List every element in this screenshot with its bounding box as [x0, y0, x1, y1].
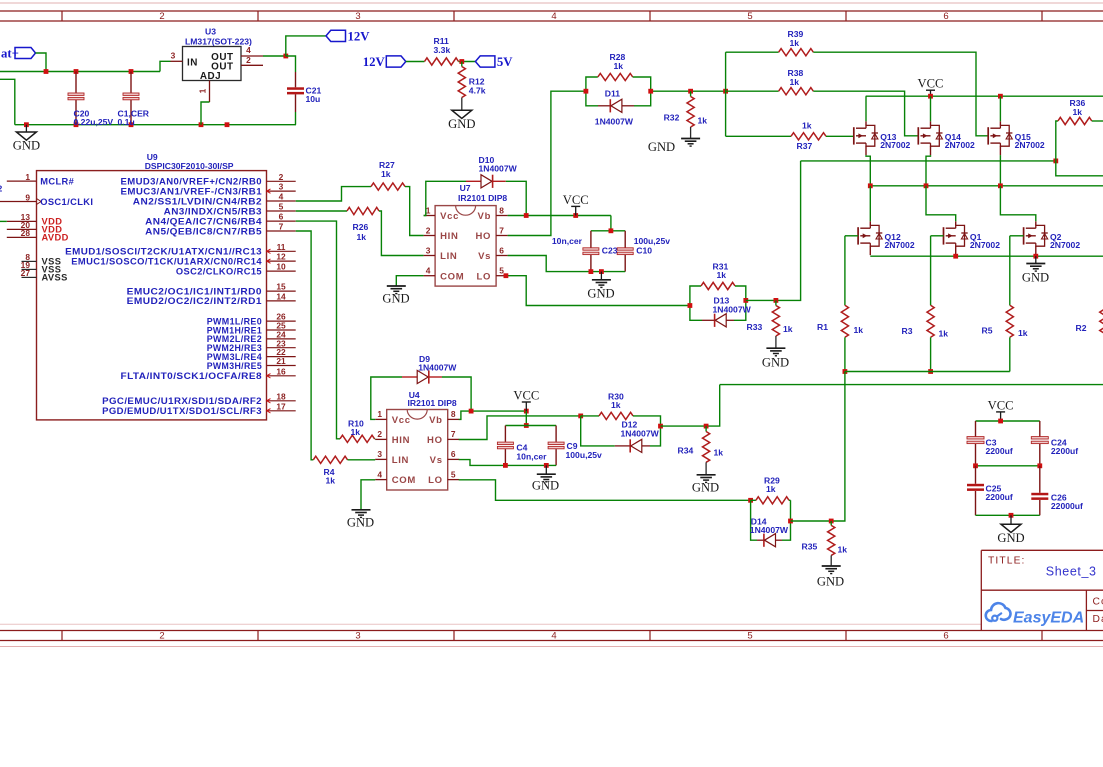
svg-text:2200uf: 2200uf — [986, 492, 1013, 502]
capacitor C25 — [967, 466, 1013, 516]
wire R26 to LIN — [379, 211, 424, 256]
svg-text:AVDD: AVDD — [42, 233, 69, 243]
resistor R39 — [779, 29, 814, 56]
resistor R32 — [664, 91, 708, 138]
resistor R5 — [982, 305, 1028, 371]
svg-text:5: 5 — [747, 631, 752, 642]
resistor R35 — [802, 521, 848, 566]
svg-text:IR2101 DIP8: IR2101 DIP8 — [458, 193, 507, 203]
capacitor C3 — [967, 421, 1013, 466]
svg-text:Vb: Vb — [429, 415, 443, 426]
ground GND4 — [382, 286, 409, 306]
svg-text:2200uf: 2200uf — [986, 446, 1013, 456]
ground GND12 — [997, 515, 1024, 545]
net flag 12V source — [363, 55, 406, 69]
EasyEDA logo — [986, 603, 1084, 626]
svg-text:4.7k: 4.7k — [469, 85, 486, 95]
wire LO to D13 — [504, 273, 690, 305]
svg-text:GND: GND — [587, 287, 614, 301]
svg-text:22000uf: 22000uf — [1051, 501, 1083, 511]
svg-text:3: 3 — [426, 245, 431, 255]
svg-text:1: 1 — [426, 205, 431, 215]
svg-text:9: 9 — [25, 192, 30, 202]
wire to U3 IN — [160, 61, 171, 71]
svg-text:GND: GND — [532, 479, 559, 493]
svg-text:GND: GND — [448, 117, 475, 131]
svg-text:DSPIC30F2010-30I/SP: DSPIC30F2010-30I/SP — [145, 161, 234, 171]
svg-text:7: 7 — [499, 225, 504, 235]
capacitor C23 — [552, 231, 618, 272]
svg-text:GND: GND — [692, 481, 719, 495]
svg-text:6: 6 — [451, 449, 456, 459]
svg-text:5: 5 — [451, 469, 456, 479]
svg-text:AN2/SS1/LVDIN/CN4/RB2: AN2/SS1/LVDIN/CN4/RB2 — [133, 196, 262, 206]
ground GND8 — [532, 465, 559, 492]
wire U7 COM to ground — [396, 276, 423, 286]
wire U3 out — [263, 54, 288, 59]
wire — [36, 53, 47, 72]
svg-text:2200uf: 2200uf — [1051, 446, 1078, 456]
svg-text:ADJ: ADJ — [200, 71, 221, 82]
wire Q1 gate — [931, 236, 944, 305]
svg-text:AN3/INDX/CN5/RB3: AN3/INDX/CN5/RB3 — [164, 206, 262, 216]
wire + junction — [459, 59, 476, 64]
capacitor C26 — [1031, 466, 1083, 516]
svg-text:LO: LO — [428, 475, 443, 486]
wire to 12V flag — [286, 36, 326, 56]
svg-text:U3: U3 — [205, 26, 216, 36]
wire U7 Vcc up — [424, 181, 466, 215]
svg-text:1k: 1k — [611, 400, 621, 410]
svg-text:1N4007W: 1N4007W — [479, 163, 518, 173]
svg-text:4: 4 — [426, 266, 431, 276]
svg-text:3: 3 — [171, 50, 176, 60]
resistor R28 — [586, 52, 651, 91]
svg-text:14: 14 — [276, 292, 286, 302]
svg-text:1k: 1k — [326, 475, 336, 485]
wire LO U4 to R29 — [459, 480, 751, 501]
svg-text:U7: U7 — [460, 183, 471, 193]
transistor Q13 — [854, 96, 911, 186]
wire D11 output — [584, 89, 729, 94]
IC U7 IR2101 — [424, 183, 508, 286]
resistor R2 — [1076, 305, 1103, 337]
svg-text:AN5/QEB/IC8/CN7/RB5: AN5/QEB/IC8/CN7/RB5 — [145, 226, 262, 236]
power flag VCC3 — [513, 388, 539, 411]
svg-text:1k: 1k — [790, 77, 800, 87]
wire to cap rail — [610, 216, 612, 231]
svg-text:4: 4 — [279, 192, 284, 202]
svg-text:PGC/EMUC/U1RX/SDI1/SDA/RF2: PGC/EMUC/U1RX/SDI1/SDA/RF2 — [102, 396, 262, 406]
svg-text:GND: GND — [817, 575, 844, 589]
svg-text:R35: R35 — [802, 541, 818, 551]
svg-text:2N7002: 2N7002 — [970, 240, 1000, 250]
wire U9 pin6 down — [296, 221, 340, 439]
svg-text:10: 10 — [276, 262, 286, 272]
svg-text:Vcc: Vcc — [392, 415, 411, 426]
svg-text:LIN: LIN — [440, 251, 457, 262]
svg-text:12: 12 — [276, 252, 286, 262]
net flag Bat+ — [1, 47, 36, 61]
wire VCC rail row1 — [866, 94, 1103, 99]
ground GND3 — [587, 272, 614, 301]
ground GND9 — [347, 510, 374, 530]
ground GND10 — [692, 475, 719, 495]
svg-text:12V: 12V — [348, 30, 371, 44]
svg-text:GND: GND — [762, 356, 789, 370]
wire drain bus row2 — [868, 183, 1103, 188]
svg-text:OSC1/CLKI: OSC1/CLKI — [40, 197, 93, 207]
svg-text:2: 2 — [0, 184, 3, 194]
wire R37 to Q13 gate — [826, 135, 854, 137]
svg-text:EasyEDA: EasyEDA — [1013, 610, 1084, 627]
wire HO up to D11 — [508, 91, 586, 235]
svg-text:PWM3H/RE5: PWM3H/RE5 — [207, 361, 262, 371]
svg-text:GND: GND — [1022, 271, 1049, 285]
svg-text:Vs: Vs — [478, 251, 491, 262]
svg-text:GND: GND — [382, 292, 409, 306]
svg-text:10u: 10u — [306, 94, 321, 104]
resistor R31 — [690, 261, 746, 305]
svg-text:VCC: VCC — [563, 193, 589, 207]
IC U9 DSPIC30F2010 — [0, 152, 296, 420]
svg-text:0.22u,25V: 0.22u,25V — [74, 117, 114, 127]
svg-text:1N4007W: 1N4007W — [621, 428, 660, 438]
svg-text:4: 4 — [551, 11, 556, 22]
ground GND1 — [13, 125, 40, 153]
resistor R33 — [747, 300, 793, 347]
wire bus down to phase node — [776, 161, 801, 301]
svg-text:1k: 1k — [838, 544, 848, 554]
wire D9 to Vb — [442, 377, 471, 411]
resistor R10 — [340, 418, 375, 442]
svg-text:R2: R2 — [1076, 323, 1087, 333]
svg-text:1k: 1k — [766, 484, 776, 494]
svg-text:1k: 1k — [1073, 107, 1083, 117]
wire U9 pin7 down — [296, 231, 314, 460]
svg-text:10n,cer: 10n,cer — [552, 236, 583, 246]
svg-text:Vcc: Vcc — [440, 211, 459, 222]
svg-text:R37: R37 — [797, 141, 813, 151]
IC U4 IR2101 — [375, 390, 459, 490]
power flag VCC1 — [563, 193, 589, 216]
svg-text:IN: IN — [187, 57, 198, 68]
svg-text:1k: 1k — [783, 324, 793, 334]
svg-text:2N7002: 2N7002 — [880, 140, 910, 150]
svg-text:1: 1 — [198, 88, 208, 93]
svg-text:3: 3 — [355, 631, 360, 642]
svg-text:1k: 1k — [790, 38, 800, 48]
svg-text:8: 8 — [499, 205, 504, 215]
net label fragment — [0, 184, 3, 194]
svg-text:1N4007W: 1N4007W — [595, 116, 634, 126]
diode D10 — [466, 155, 518, 188]
resistor R29 — [748, 476, 790, 504]
wire U4 COM to ground — [361, 480, 375, 510]
svg-text:1k: 1k — [714, 447, 724, 457]
svg-text:R5: R5 — [982, 325, 993, 335]
resistor R3 — [902, 305, 949, 374]
svg-text:2: 2 — [426, 225, 431, 235]
svg-text:4: 4 — [377, 469, 382, 479]
svg-text:R1: R1 — [817, 322, 828, 332]
svg-text:LM317(SOT-223): LM317(SOT-223) — [185, 36, 252, 46]
svg-text:VCC: VCC — [513, 388, 539, 402]
svg-text:6: 6 — [279, 212, 284, 222]
svg-text:R3: R3 — [902, 326, 913, 336]
svg-text:Co: Co — [1093, 597, 1103, 608]
diode D11 — [586, 88, 651, 126]
wire U4 Vcc up — [371, 377, 402, 419]
svg-text:8: 8 — [451, 409, 456, 419]
wire Vs to cap bottom rail U4 — [459, 460, 556, 468]
svg-text:EMUC3/AN1/VREF-/CN3/RB1: EMUC3/AN1/VREF-/CN3/RB1 — [121, 186, 263, 196]
wire cap bank top rail — [976, 419, 1040, 424]
svg-text:EMUC1/SOSCO/T1CK/U1ARX/CN0/RC1: EMUC1/SOSCO/T1CK/U1ARX/CN0/RC14 — [71, 256, 262, 266]
svg-text:3: 3 — [279, 182, 284, 192]
svg-text:1: 1 — [25, 172, 30, 182]
regulator U3 — [171, 26, 264, 102]
svg-text:6: 6 — [499, 245, 504, 255]
svg-text:1N4007W: 1N4007W — [418, 363, 457, 373]
wire gate-resistor rail — [845, 371, 1010, 373]
svg-text:2N7002: 2N7002 — [1050, 240, 1080, 250]
resistor R37 — [791, 121, 826, 151]
svg-text:MCLR#: MCLR# — [40, 177, 74, 187]
svg-text:5: 5 — [279, 202, 284, 212]
svg-text:1: 1 — [377, 409, 382, 419]
power flag VCC4 — [988, 398, 1014, 421]
svg-text:21: 21 — [276, 356, 286, 366]
svg-text:Vb: Vb — [478, 211, 492, 222]
svg-text:HO: HO — [427, 435, 443, 446]
wire cap bank bottom rail — [976, 513, 1040, 518]
svg-text:Sheet_3: Sheet_3 — [1046, 565, 1097, 579]
wire main input rail — [0, 69, 160, 74]
ground GND6 — [1022, 256, 1049, 284]
svg-text:1k: 1k — [802, 121, 812, 131]
svg-text:2N7002: 2N7002 — [885, 240, 915, 250]
svg-text:GND: GND — [997, 531, 1024, 545]
svg-text:6: 6 — [943, 11, 948, 22]
wire R39 to Q15 gate — [813, 52, 988, 136]
wire R27 to HIN — [405, 187, 424, 236]
svg-text:R26: R26 — [353, 222, 369, 232]
svg-text:1k: 1k — [1018, 328, 1028, 338]
svg-text:2: 2 — [279, 172, 284, 182]
svg-text:at+: at+ — [1, 47, 19, 61]
svg-text:LO: LO — [477, 271, 492, 282]
svg-text:1k: 1k — [698, 115, 708, 125]
transistor Q14 — [918, 96, 975, 186]
capacitor C9 — [548, 426, 602, 466]
svg-text:1N4007W: 1N4007W — [750, 525, 789, 535]
svg-text:HO: HO — [475, 231, 491, 242]
svg-text:EMUD3/AN0/VREF+/CN2/RB0: EMUD3/AN0/VREF+/CN2/RB0 — [121, 177, 263, 187]
svg-text:GND: GND — [648, 140, 675, 154]
capacitor C1 — [118, 72, 150, 128]
svg-text:EMUD1/SOSCI/T2CK/U1ATX/CN1//RC: EMUD1/SOSCI/T2CK/U1ATX/CN1//RC13 — [65, 247, 262, 257]
svg-text:R33: R33 — [747, 322, 763, 332]
svg-text:3: 3 — [355, 11, 360, 22]
wire R38 to Q14 gate — [813, 91, 918, 136]
svg-text:6: 6 — [943, 631, 948, 642]
svg-text:IR2101 DIP8: IR2101 DIP8 — [408, 398, 457, 408]
svg-text:28: 28 — [21, 228, 31, 238]
wire D12 output — [661, 385, 720, 429]
svg-text:C10: C10 — [636, 245, 652, 255]
svg-text:18: 18 — [276, 391, 286, 401]
svg-text:0.1u: 0.1u — [118, 117, 135, 127]
svg-text:2: 2 — [246, 55, 251, 65]
svg-text:PGD/EMUD/U1TX/SDO1/SCL/RF3: PGD/EMUD/U1TX/SDO1/SCL/RF3 — [102, 406, 262, 416]
svg-text:FLTA/INT0/SCK1/OCFA/RE8: FLTA/INT0/SCK1/OCFA/RE8 — [121, 371, 263, 381]
svg-text:7: 7 — [451, 429, 456, 439]
resistor R4 — [313, 456, 375, 485]
svg-text:16: 16 — [276, 366, 286, 376]
svg-text:17: 17 — [276, 401, 286, 411]
capacitor C4 — [497, 426, 547, 466]
svg-text:2: 2 — [377, 429, 382, 439]
wire U9 pin4 to R27 — [296, 187, 371, 201]
svg-text:1k: 1k — [614, 61, 624, 71]
svg-text:EMUD2/OC2/IC2/INT2/RD1: EMUD2/OC2/IC2/INT2/RD1 — [127, 296, 262, 306]
wire — [406, 61, 425, 63]
wire Vb rail U4 — [459, 409, 529, 420]
svg-text:1k: 1k — [939, 328, 949, 338]
svg-text:VCC: VCC — [918, 77, 944, 91]
resistor R38 — [779, 68, 814, 95]
resistor R36 — [1056, 98, 1103, 161]
capacitor C10 — [617, 231, 670, 272]
svg-text:Da: Da — [1093, 614, 1103, 625]
diode D12 — [581, 416, 663, 453]
wire cap top rail U4 — [505, 425, 556, 427]
svg-text:AN4/QEA/IC7/CN6/RB4: AN4/QEA/IC7/CN6/RB4 — [145, 216, 262, 226]
wire U9 pin5 to R26 — [296, 210, 347, 212]
wire ground rail — [15, 122, 296, 127]
wire Vs to cap bottom rail — [508, 256, 626, 275]
svg-text:2: 2 — [159, 11, 164, 22]
capacitor C24 — [1031, 421, 1078, 466]
svg-text:C23: C23 — [602, 245, 618, 255]
svg-text:AVSS: AVSS — [42, 273, 68, 283]
wire cap bank mid rail — [973, 463, 1042, 468]
svg-text:27: 27 — [21, 268, 31, 278]
ground GND7 — [762, 348, 789, 369]
wire Vb rail — [508, 213, 611, 218]
svg-text:OSC2/CLKO/RC15: OSC2/CLKO/RC15 — [176, 266, 262, 276]
wire HO U4 to R30 — [459, 414, 583, 440]
svg-text:11: 11 — [277, 242, 286, 252]
svg-text:2: 2 — [159, 631, 164, 642]
wire source bus row2 — [870, 254, 1103, 259]
capacitor C21 — [286, 56, 322, 125]
svg-text:1k: 1k — [381, 169, 391, 179]
svg-text:HIN: HIN — [440, 231, 458, 242]
svg-text:Vs: Vs — [430, 455, 443, 466]
svg-text:3: 3 — [377, 449, 382, 459]
svg-text:5V: 5V — [497, 55, 513, 69]
resistor R27 — [371, 160, 405, 190]
svg-text:VCC: VCC — [988, 398, 1014, 412]
diode D14 — [750, 500, 793, 547]
wire Q2 gate — [1010, 236, 1024, 305]
resistor R11 — [425, 36, 459, 65]
wire U3 adj down — [201, 102, 210, 125]
svg-text:COM: COM — [392, 475, 416, 486]
wire source bus row1 — [801, 159, 1059, 164]
ground GND5 — [648, 139, 700, 154]
resistor R34 — [678, 426, 724, 474]
svg-text:2N7002: 2N7002 — [1015, 140, 1045, 150]
svg-text:4: 4 — [551, 631, 556, 642]
transistor Q15 — [988, 96, 1045, 186]
svg-text:1k: 1k — [357, 232, 367, 242]
svg-text:HIN: HIN — [392, 435, 410, 446]
svg-text:7: 7 — [279, 222, 284, 232]
svg-text:12V: 12V — [363, 55, 386, 69]
svg-text:R32: R32 — [664, 112, 680, 122]
svg-text:100u,25v: 100u,25v — [566, 450, 603, 460]
wire D10 to Vb — [506, 181, 526, 215]
wire D14 output — [791, 372, 845, 524]
wire long bus — [720, 384, 1103, 386]
svg-text:1N4007W: 1N4007W — [713, 304, 752, 314]
svg-text:1k: 1k — [854, 325, 864, 335]
capacitor C20 — [68, 72, 113, 128]
transistor Q12 — [858, 186, 915, 255]
wire to gate resistors — [726, 52, 791, 136]
diode D9 — [402, 354, 457, 384]
svg-text:TITLE:: TITLE: — [988, 556, 1026, 567]
ground GND2 — [448, 110, 475, 131]
diode D13 — [688, 295, 752, 327]
transistor Q1 — [926, 186, 1000, 255]
wire cap top rail — [591, 228, 625, 233]
transistor Q2 — [1000, 186, 1080, 255]
resistor R1 — [817, 305, 863, 374]
net flag 5V — [475, 55, 513, 69]
resistor R30 — [581, 392, 661, 427]
wire left stub — [0, 79, 15, 124]
resistor R12 — [458, 62, 486, 110]
svg-text:LIN: LIN — [392, 455, 409, 466]
svg-text:COM: COM — [440, 271, 464, 282]
resistor R26 — [347, 207, 379, 241]
wire VCC down to cap rail — [524, 411, 529, 428]
svg-text:5: 5 — [747, 11, 752, 22]
svg-text:D11: D11 — [605, 88, 621, 98]
svg-text:R34: R34 — [678, 445, 694, 455]
net flag 12V out — [326, 30, 370, 44]
svg-text:100u,25v: 100u,25v — [634, 236, 671, 246]
title block — [981, 550, 1103, 631]
power flag VCC2 — [918, 77, 944, 97]
svg-text:GND: GND — [13, 139, 40, 153]
wire right exit — [1056, 161, 1103, 176]
wire phase node — [746, 298, 779, 303]
svg-text:4: 4 — [246, 45, 251, 55]
svg-text:1k: 1k — [717, 270, 727, 280]
svg-text:3.3k: 3.3k — [434, 45, 451, 55]
svg-text:15: 15 — [276, 282, 286, 292]
ground GND11 — [817, 566, 844, 589]
svg-text:GND: GND — [347, 516, 374, 530]
svg-text:EMUC2/OC1/IC1/INT1/RD0: EMUC2/OC1/IC1/INT1/RD0 — [127, 286, 262, 296]
svg-text:10n,cer: 10n,cer — [516, 451, 547, 461]
svg-text:1k: 1k — [351, 427, 361, 437]
